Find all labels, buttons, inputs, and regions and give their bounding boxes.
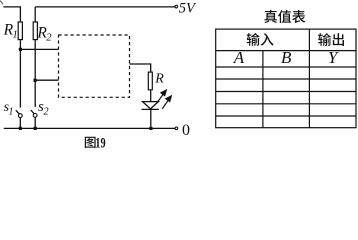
- svg-text:s2: s2: [38, 99, 49, 117]
- wire top rail right segment to 5V: [35, 6, 175, 8]
- switch S1 contact circle: [18, 114, 22, 118]
- svg-text:R1: R1: [3, 22, 18, 41]
- LED emission arrow 2: [162, 96, 171, 109]
- wire R2 top branch: [34, 7, 36, 22]
- resistor R2: [33, 22, 37, 40]
- terminal 0: [175, 127, 178, 130]
- svg-text:R: R: [154, 72, 164, 87]
- LED emission arrow 1: [157, 90, 166, 103]
- wire node B horizontal to gate input: [35, 79, 58, 81]
- switch S2 blade: [31, 110, 34, 114]
- switch S2 contact circle: [33, 114, 37, 118]
- LED D1 triangle: [143, 102, 159, 109]
- terminal +5V: [175, 5, 178, 8]
- table header 输入: [247, 33, 274, 46]
- switch S1 blade: [16, 110, 19, 114]
- wire bottom rail (ground / 0 V): [4, 127, 175, 129]
- wire node A horizontal to gate input: [20, 48, 58, 50]
- wire resistor R to LED: [150, 90, 152, 101]
- svg-text:A: A: [233, 48, 245, 67]
- table header 输出: [318, 33, 344, 46]
- svg-text:R2: R2: [36, 24, 52, 43]
- wire gate output to resistor R: [130, 64, 151, 72]
- node A junction dot: [19, 48, 22, 51]
- table title 真值表: [264, 10, 305, 23]
- LED D1 cathode bar: [142, 108, 159, 110]
- svg-text:19: 19: [95, 135, 105, 151]
- svg-text:5V: 5V: [179, 0, 197, 16]
- svg-text:B: B: [281, 48, 292, 67]
- junction dot LED-rail: [149, 127, 152, 130]
- junction dot S2-rail: [34, 127, 37, 130]
- wire top rail left stub: [3, 7, 20, 22]
- node B junction dot: [34, 79, 37, 82]
- resistor R1: [18, 22, 22, 40]
- wire LED to bottom rail: [150, 109, 152, 128]
- switch S1 lower stub: [19, 118, 21, 129]
- resistor R: [148, 72, 152, 90]
- scan speck top-left: [0, 1, 3, 5]
- junction dot S1-rail: [19, 127, 22, 130]
- gate U1 dashed box: [59, 35, 130, 97]
- wire R1 vertical down to switch S1: [19, 40, 21, 108]
- truth table grid: [216, 29, 356, 128]
- wire R2 vertical down to switch S2: [34, 40, 36, 107]
- svg-text:0: 0: [182, 122, 190, 139]
- switch S2 lower stub: [34, 117, 36, 128]
- label figure 图19: [85, 137, 96, 148]
- svg-text:Y: Y: [328, 48, 339, 67]
- svg-text:s1: s1: [4, 100, 14, 118]
